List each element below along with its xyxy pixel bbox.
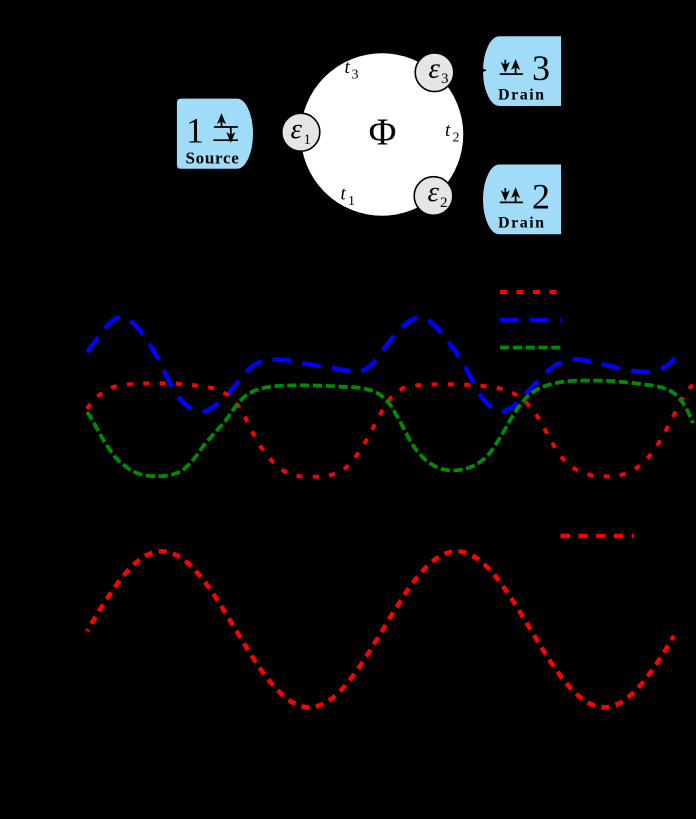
drain 2 lead box [483, 164, 562, 235]
svg-text:3: 3 [532, 48, 550, 88]
drain 2 level line [500, 201, 523, 203]
svg-text:2: 2 [453, 131, 460, 146]
source spin-up arrow [221, 117, 223, 127]
legend sample charge current (blue long dash) [500, 318, 561, 323]
svg-text:ε: ε [429, 53, 441, 85]
legend sample spin-up current (red dotted) [500, 290, 559, 294]
svg-text:1: 1 [186, 110, 204, 150]
svg-text:3: 3 [352, 67, 359, 82]
quantum dot (ring) [300, 53, 464, 217]
svg-text:Source: Source [186, 149, 240, 168]
svg-text:ε: ε [428, 176, 440, 208]
svg-text:t: t [345, 57, 351, 78]
svg-text:Drain: Drain [498, 86, 546, 103]
source energy levels [213, 127, 238, 140]
drain 3 spin-up arrow [515, 63, 517, 74]
drain 3 spin-down arrow [504, 60, 506, 69]
dot site e1 [282, 113, 320, 151]
svg-text:ε: ε [291, 113, 303, 145]
svg-text:t: t [445, 120, 451, 141]
source lead box [176, 98, 253, 169]
drain 3 lead box [483, 36, 562, 107]
source spin-down arrow [230, 127, 232, 139]
legend sample spin polarization (red dashed) [561, 534, 635, 539]
curve spin polarization (red dashed sine) [87, 551, 674, 707]
svg-text:2: 2 [532, 177, 550, 217]
drain 3 level line [500, 73, 523, 75]
curve spin-up current (red dotted) [87, 383, 693, 477]
drain 2 spin-up arrow [515, 191, 517, 202]
svg-text:3: 3 [441, 71, 449, 87]
svg-text:1: 1 [304, 132, 312, 148]
legend sample spin-down current (green dashed) [500, 346, 561, 350]
dot site e2 [414, 177, 453, 216]
svg-text:Drain: Drain [498, 215, 546, 232]
svg-text:Φ: Φ [369, 111, 397, 153]
svg-text:1: 1 [348, 194, 355, 209]
dot site e3 [415, 53, 454, 92]
lead arrow into drain 3 [455, 69, 480, 71]
svg-text:2: 2 [440, 195, 448, 211]
curve spin-down current (green dashed) [87, 381, 693, 477]
svg-text:t: t [341, 183, 347, 204]
drain 2 spin-down arrow [504, 188, 506, 197]
curve charge current (blue long dash) [87, 317, 681, 411]
